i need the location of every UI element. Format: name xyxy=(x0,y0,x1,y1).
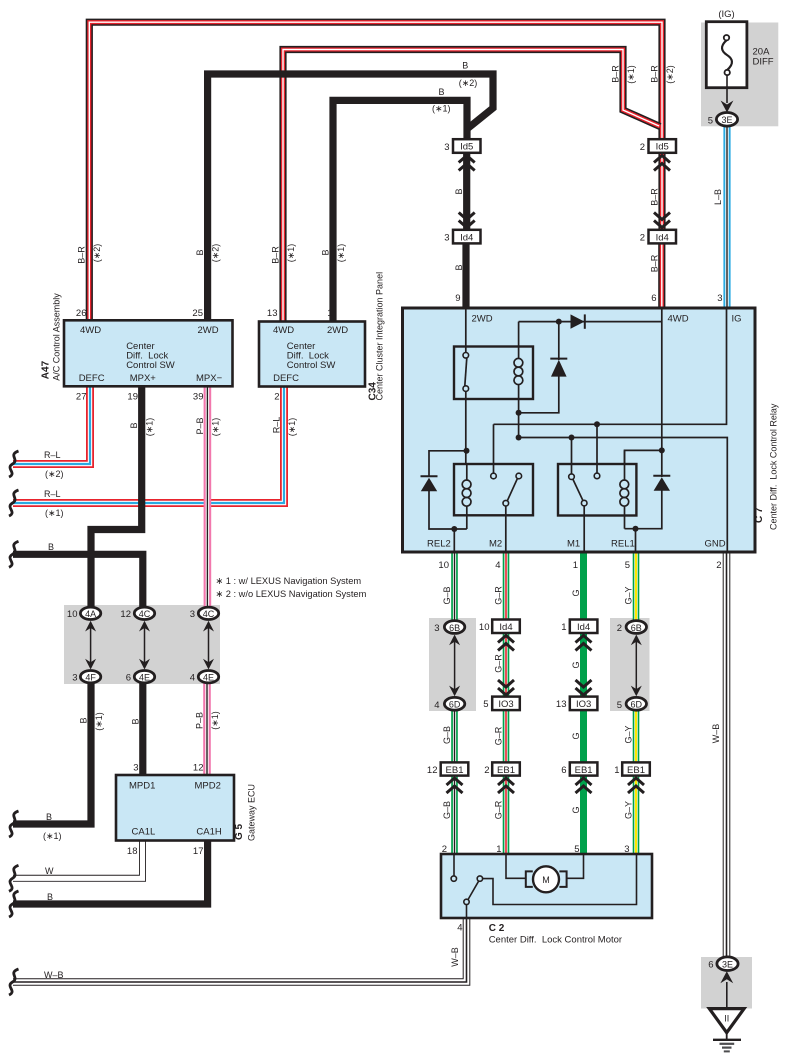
svg-text:Control SW: Control SW xyxy=(287,360,336,371)
wire B from junction 4E-6 to G5 MPD1 pin 3 xyxy=(139,677,146,776)
svg-text:10: 10 xyxy=(438,560,449,571)
chevrons above Id4 pin 3 xyxy=(459,213,475,228)
svg-text:R–L: R–L xyxy=(272,417,282,434)
svg-text:B: B xyxy=(46,812,52,822)
svg-text:(IG): (IG) xyxy=(718,9,734,20)
junction oval 4C pin 3 xyxy=(198,607,218,619)
svg-text:G–Y: G–Y xyxy=(624,586,634,604)
svg-text:REL2: REL2 xyxy=(427,539,451,550)
svg-text:B: B xyxy=(454,188,464,194)
wire B from left squiggle to G5 CA1H pin 17 xyxy=(13,840,208,904)
svg-text:2WD: 2WD xyxy=(327,325,348,336)
svg-text:GND: GND xyxy=(705,539,726,550)
svg-text:1: 1 xyxy=(561,622,566,633)
svg-text:M1: M1 xyxy=(567,539,580,550)
svg-text:1: 1 xyxy=(496,844,501,855)
motor M circle xyxy=(533,866,559,892)
REL1 down xyxy=(635,529,637,552)
svg-text:B: B xyxy=(454,264,464,270)
svg-text:A/C Control Assembly: A/C Control Assembly xyxy=(52,293,62,381)
svg-text:EB1: EB1 xyxy=(575,765,593,776)
junction oval 4C pin 12 xyxy=(134,607,154,619)
diode up (right, REL1) xyxy=(653,476,670,491)
svg-text:G–R: G–R xyxy=(494,726,504,745)
svg-text:G: G xyxy=(571,806,581,813)
coil top relay xyxy=(514,347,523,400)
ground point triangle II xyxy=(709,1009,744,1033)
arrows between 4A and 4F xyxy=(85,621,96,670)
connector Id4 pin 10 (M2 column) xyxy=(492,620,520,634)
svg-text:(∗1): (∗1) xyxy=(210,711,220,730)
svg-text:EB1: EB1 xyxy=(446,765,464,776)
chevrons above Id4 pin 2 xyxy=(654,213,670,228)
svg-text:(∗2): (∗2) xyxy=(211,244,221,263)
svg-text:Center Cluster Integration Pan: Center Cluster Integration Panel xyxy=(375,272,385,401)
svg-text:R–L: R–L xyxy=(44,489,61,499)
svg-text:3: 3 xyxy=(444,233,449,244)
left diode branch xyxy=(429,451,467,477)
svg-text:G: G xyxy=(571,589,581,596)
svg-text:4: 4 xyxy=(457,923,462,934)
contact circles C7 xyxy=(463,353,600,507)
svg-text:5: 5 xyxy=(617,700,622,711)
wire 2WD vertical xyxy=(465,308,467,353)
svg-text:4E: 4E xyxy=(139,672,150,682)
svg-text:10: 10 xyxy=(67,609,78,620)
wire G-R from C7 M2 pin 4 through Id4-10, IO3-5, EB1-2 to C2 pin 1 xyxy=(503,552,510,855)
svg-text:Id4: Id4 xyxy=(577,622,590,633)
svg-text:2: 2 xyxy=(442,844,447,855)
svg-text:P–B: P–B xyxy=(195,712,205,729)
relay box bottom-left xyxy=(454,464,533,515)
svg-text:G 5: G 5 xyxy=(234,823,245,840)
svg-text:G–B: G–B xyxy=(442,801,452,819)
chevrons below Id4 pin 10 xyxy=(498,636,514,651)
wire B from left squiggle to junction 4C-12 xyxy=(13,554,143,613)
svg-text:B: B xyxy=(195,249,205,255)
fuse element xyxy=(722,35,732,75)
fuse 20A DIFF rectangle xyxy=(706,22,747,88)
svg-text:C 2: C 2 xyxy=(489,923,505,934)
svg-text:Center Diff. Lock Control Mot: Center Diff. Lock Control Motor xyxy=(489,935,622,946)
wire B-R between Id5-2 and Id4-2 xyxy=(658,153,665,231)
svg-text:4: 4 xyxy=(190,673,195,684)
chevrons above IO3 pin 5 xyxy=(498,680,514,695)
svg-text:6D: 6D xyxy=(631,700,643,710)
wire B (*2) from A47 pin 25 joining Id5 pin 3 xyxy=(208,74,493,322)
svg-text:B–R: B–R xyxy=(650,65,660,83)
svg-text:P–B: P–B xyxy=(195,417,205,434)
svg-text:4A: 4A xyxy=(85,609,96,619)
svg-text:(∗1): (∗1) xyxy=(211,418,221,437)
svg-text:(∗1): (∗1) xyxy=(286,244,296,263)
svg-text:(∗1): (∗1) xyxy=(145,418,155,437)
svg-text:W–B: W–B xyxy=(44,970,64,980)
ground symbol xyxy=(713,1033,741,1052)
svg-text:9: 9 xyxy=(455,293,460,304)
wire B-R from Id4-2 to C7 pin 6 xyxy=(658,243,665,308)
coil bottom-right relay xyxy=(620,450,629,528)
wire G-Y from C7 REL1 pin 5 to junction 6B-2 xyxy=(633,552,640,627)
svg-text:3: 3 xyxy=(717,293,722,304)
svg-text:R–L: R–L xyxy=(44,450,61,460)
svg-text:MPX−: MPX− xyxy=(196,373,223,384)
REL2 down xyxy=(453,529,455,552)
diode up (left, REL2) xyxy=(421,476,438,491)
wire P-B from A47 MPX- pin 39 to junction 4C-3 xyxy=(204,386,212,613)
svg-text:L–B: L–B xyxy=(713,189,723,205)
svg-text:26: 26 xyxy=(76,308,87,319)
wire R-L (*2) from left squiggle to A47 DEFC pin 27 xyxy=(13,386,90,464)
svg-text:Center Diff. Lock Control Rel: Center Diff. Lock Control Relay xyxy=(769,403,779,530)
svg-text:(∗2): (∗2) xyxy=(459,78,478,88)
svg-text:5: 5 xyxy=(708,115,713,126)
wire from fuse to 3E with down arrow xyxy=(721,75,734,113)
connector EB1 pin 6 xyxy=(570,762,598,775)
svg-text:2: 2 xyxy=(640,233,645,244)
coil top connect right relay xyxy=(625,450,662,464)
svg-text:3: 3 xyxy=(72,673,77,684)
center diff. lock control motor C2 box xyxy=(441,854,652,918)
connector IO3 pin 13 xyxy=(570,697,598,711)
junction oval 6D pin 4 xyxy=(444,697,464,710)
svg-text:B: B xyxy=(462,61,468,71)
svg-text:W–B: W–B xyxy=(711,724,721,744)
connector Id5 pin 2 xyxy=(649,139,677,153)
wire B from Id4-3 to C7 pin 9 xyxy=(462,243,469,308)
svg-text:G: G xyxy=(571,661,581,668)
svg-text:(∗1): (∗1) xyxy=(45,508,64,518)
svg-text:M2: M2 xyxy=(489,539,502,550)
svg-text:4: 4 xyxy=(495,560,500,571)
wire G-B from junction 6D-4 to C2 pin 2 xyxy=(451,704,458,855)
svg-text:13: 13 xyxy=(556,699,567,710)
svg-text:Id4: Id4 xyxy=(460,232,473,243)
svg-text:B: B xyxy=(438,87,444,97)
svg-text:1: 1 xyxy=(327,308,332,319)
wire W from left squiggle to G5 CA1L pin 18 xyxy=(13,840,143,878)
svg-text:(∗1): (∗1) xyxy=(336,244,346,263)
svg-text:3E: 3E xyxy=(721,115,732,125)
lever M1 xyxy=(573,479,583,501)
gray block: junction connector 6B/6D (G-B column) xyxy=(429,618,476,711)
svg-text:(∗2): (∗2) xyxy=(92,244,102,263)
wire G-Y from junction 6D-5 to C2 pin 3 xyxy=(633,704,640,855)
v597 xyxy=(596,424,598,473)
svg-text:3: 3 xyxy=(133,763,138,774)
junction oval 6B pin 2 xyxy=(626,621,646,634)
gray block: fuse holder background xyxy=(701,23,778,127)
svg-text:B: B xyxy=(321,249,331,255)
wire W-B from left squiggle to C2 motor pin 4 xyxy=(13,918,467,982)
svg-text:6D: 6D xyxy=(449,700,461,710)
line1 xyxy=(494,308,727,424)
relay box top xyxy=(454,347,533,400)
lever M2 xyxy=(507,478,517,501)
svg-text:10: 10 xyxy=(479,622,490,633)
svg-text:G: G xyxy=(571,732,581,739)
wire B from A47 MPX+ pin 19 to junction 4A xyxy=(91,386,142,613)
wire L-B from fuse 3E to C7 pin 3 (IG) xyxy=(723,124,730,308)
wire G from C7 M1 pin 1 through Id4-1, IO3-13, EB1-6 to C2 pin 5 xyxy=(580,552,587,855)
arrow up into 3E and line from ground triangle xyxy=(720,971,733,1008)
chevrons below Id4 pin 1 xyxy=(576,636,592,651)
line2 xyxy=(519,438,728,553)
svg-text:B: B xyxy=(131,718,141,724)
wire B-R (*1) from C34 pin 13 joining Id5 pin 2 xyxy=(283,50,660,323)
connector EB1 pin 12 xyxy=(441,762,469,775)
junction oval 4A xyxy=(80,607,100,619)
svg-text:(∗1): (∗1) xyxy=(432,104,451,114)
svg-text:(∗2): (∗2) xyxy=(665,65,675,84)
svg-text:3: 3 xyxy=(444,142,449,153)
svg-text:4C: 4C xyxy=(139,609,151,619)
svg-text:G–Y: G–Y xyxy=(624,801,634,819)
svg-text:3E: 3E xyxy=(722,959,733,969)
svg-text:G–R: G–R xyxy=(494,800,504,819)
svg-text:5: 5 xyxy=(625,560,630,571)
svg-text:19: 19 xyxy=(127,392,138,403)
svg-text:G–R: G–R xyxy=(494,654,504,673)
connector Id4 pin 3 xyxy=(453,230,481,244)
svg-text:2: 2 xyxy=(274,392,279,403)
svg-text:18: 18 xyxy=(127,846,138,857)
wire P-B from junction 4E-4 to G5 MPD2 pin 12 xyxy=(203,677,211,776)
arrows between 6B and 6D xyxy=(449,635,460,697)
wire R-L (*1) from left squiggle to C34 DEFC pin 2 xyxy=(13,386,284,503)
svg-text:C 7: C 7 xyxy=(754,507,765,523)
svg-text:CA1L: CA1L xyxy=(132,827,156,838)
svg-text:(∗1): (∗1) xyxy=(43,831,62,841)
connector EB1 pin 2 xyxy=(492,762,520,775)
relay box bottom-right xyxy=(558,464,636,516)
center diff. lock control relay C7 box xyxy=(403,308,756,552)
svg-text:5: 5 xyxy=(483,699,488,710)
switch in top relay xyxy=(465,358,467,386)
svg-text:3: 3 xyxy=(624,844,629,855)
arrows between 4C and 4E pin 4 xyxy=(203,621,214,670)
svg-text:1: 1 xyxy=(573,560,578,571)
chevrons below EB1 pin 12 xyxy=(447,778,463,793)
connector EB1 pin 1 xyxy=(622,762,650,775)
arrows between 6B and 6D right xyxy=(631,635,642,697)
svg-text:6: 6 xyxy=(126,673,131,684)
A/C control assembly A47 box xyxy=(64,320,233,386)
C2 switch contact circles xyxy=(451,876,483,905)
svg-text:DEFC: DEFC xyxy=(79,373,105,384)
svg-text:6: 6 xyxy=(651,293,656,304)
4WD vertical xyxy=(661,308,663,477)
svg-text:2WD: 2WD xyxy=(198,325,219,336)
wire B (*1) from C34 pin 1 to Id5 pin 3 xyxy=(333,100,467,322)
svg-text:(∗1): (∗1) xyxy=(287,418,297,437)
svg-text:DEFC: DEFC xyxy=(273,373,299,384)
svg-text:A47: A47 xyxy=(41,360,52,379)
svg-text:Gateway ECU: Gateway ECU xyxy=(247,784,257,841)
svg-text:6: 6 xyxy=(561,765,566,776)
svg-text:4WD: 4WD xyxy=(273,325,294,336)
svg-text:4: 4 xyxy=(434,700,439,711)
connector IO3 pin 5 xyxy=(492,697,520,711)
vertical with diode to coil bottom xyxy=(558,322,560,360)
svg-text:EB1: EB1 xyxy=(627,765,645,776)
svg-text:B: B xyxy=(79,717,89,723)
wire W-B from C7 GND pin 2 to ground connector 3E-6 xyxy=(723,552,731,960)
svg-text:3: 3 xyxy=(434,623,439,634)
svg-text:2: 2 xyxy=(716,560,721,571)
svg-text:4E: 4E xyxy=(203,672,214,682)
junction oval 4E pin 6 xyxy=(134,671,154,683)
svg-text:25: 25 xyxy=(192,308,203,319)
svg-text:G–B: G–B xyxy=(442,726,452,744)
squiggle break symbols on left edge xyxy=(9,451,19,995)
svg-text:12: 12 xyxy=(193,763,204,774)
svg-text:DIFF: DIFF xyxy=(753,57,774,68)
junction oval 6D pin 5 xyxy=(626,697,646,710)
svg-text:G–R: G–R xyxy=(494,586,504,605)
svg-text:W: W xyxy=(45,866,54,876)
wire G-B from C7 REL2 pin 10 to junction 6B-3 xyxy=(451,552,458,627)
svg-text:27: 27 xyxy=(76,392,87,403)
coil bottom-left relay xyxy=(462,464,471,529)
junction oval 4F xyxy=(80,671,100,683)
gray block: junction connector 4A/4C/4F/4E xyxy=(64,605,220,684)
svg-text:(∗1): (∗1) xyxy=(94,712,104,731)
svg-text:39: 39 xyxy=(193,392,204,403)
svg-text:6: 6 xyxy=(708,959,713,970)
svg-text:M: M xyxy=(542,875,550,885)
gateway ECU G5 box xyxy=(116,775,234,841)
diode up (mid) xyxy=(550,359,567,377)
svg-text:B: B xyxy=(129,422,139,428)
svg-text:4F: 4F xyxy=(85,672,96,682)
svg-text:6B: 6B xyxy=(631,623,642,633)
svg-text:B–R: B–R xyxy=(271,246,281,264)
svg-text:12: 12 xyxy=(427,765,438,776)
svg-text:2: 2 xyxy=(640,142,645,153)
chevrons below Id5 pin 2 xyxy=(654,156,670,171)
coil wire top relay xyxy=(518,322,520,347)
svg-text:B–R: B–R xyxy=(611,65,621,83)
svg-text:Id5: Id5 xyxy=(460,142,473,153)
svg-text:CA1H: CA1H xyxy=(196,827,221,838)
wire B (*1) from junction 4F down and left to squiggle xyxy=(13,677,91,824)
svg-text:2: 2 xyxy=(617,623,622,634)
svg-text:Id5: Id5 xyxy=(656,142,669,153)
svg-text:B: B xyxy=(47,892,53,902)
svg-text:2: 2 xyxy=(484,765,489,776)
connector Id5 pin 3 xyxy=(453,139,481,153)
chevrons above IO3 pin 13 xyxy=(576,680,592,695)
junction oval 6B pin 3 xyxy=(444,621,464,634)
svg-text:G–B: G–B xyxy=(442,586,452,604)
center cluster integration panel C34 box xyxy=(259,322,365,387)
wire B between Id5-3 and Id4-3 xyxy=(463,153,470,231)
svg-text:(∗2): (∗2) xyxy=(45,469,64,479)
connector 3E (top, from fuse) xyxy=(716,113,737,127)
svg-text:B–R: B–R xyxy=(650,254,660,272)
svg-text:IO3: IO3 xyxy=(576,699,591,710)
junction dots C7 xyxy=(451,319,665,532)
svg-text:MPD1: MPD1 xyxy=(129,781,155,792)
gray block: ground connector 3E background xyxy=(701,957,752,1009)
svg-text:MPD2: MPD2 xyxy=(195,781,221,792)
svg-text:IO3: IO3 xyxy=(498,699,513,710)
svg-text:W–B: W–B xyxy=(450,947,460,967)
svg-text:5: 5 xyxy=(574,844,579,855)
arrows between 4C and 4E pin 6 xyxy=(139,621,150,670)
junction oval 4E pin 4 xyxy=(198,671,218,683)
svg-text:2WD: 2WD xyxy=(472,314,493,325)
svg-text:12: 12 xyxy=(120,609,131,620)
svg-text:4C: 4C xyxy=(203,609,215,619)
svg-text:B–R: B–R xyxy=(650,188,660,206)
svg-text:B: B xyxy=(48,542,54,552)
svg-text:(∗1): (∗1) xyxy=(626,65,636,84)
svg-text:∗ 1 : w/ LEXUS Navigation Syst: ∗ 1 : w/ LEXUS Navigation System xyxy=(215,576,361,586)
C7 internal circuit xyxy=(429,308,727,552)
connector 3E pin 6 (ground) xyxy=(717,957,738,971)
svg-text:∗ 2 : w/o LEXUS Navigation Sys: ∗ 2 : w/o LEXUS Navigation System xyxy=(215,589,366,599)
svg-text:Control SW: Control SW xyxy=(126,360,175,371)
gray block: junction connector 6B/6D (G-Y column) xyxy=(610,618,650,711)
svg-text:IG: IG xyxy=(732,314,742,325)
chevrons below EB1 pin 2 xyxy=(498,778,514,793)
chevrons below EB1 pin 1 xyxy=(628,778,644,793)
svg-text:6B: 6B xyxy=(449,623,460,633)
svg-text:13: 13 xyxy=(267,308,278,319)
svg-text:4WD: 4WD xyxy=(668,314,689,325)
svg-text:Id4: Id4 xyxy=(656,232,669,243)
diode right-pointing (top) xyxy=(571,314,585,328)
svg-text:II: II xyxy=(724,1014,729,1024)
top horizontal to 4WD xyxy=(519,321,662,323)
svg-text:B–R: B–R xyxy=(77,246,87,264)
C2 motor internal xyxy=(454,854,637,918)
svg-text:Id4: Id4 xyxy=(499,622,512,633)
svg-text:17: 17 xyxy=(193,846,204,857)
svg-text:REL1: REL1 xyxy=(611,539,635,550)
svg-text:G–Y: G–Y xyxy=(624,725,634,743)
chevrons below EB1 pin 6 xyxy=(576,778,592,793)
svg-text:EB1: EB1 xyxy=(497,765,515,776)
wire B-R (*2) from A47 pin 26 over top to Id5 pin 2 xyxy=(89,22,662,322)
svg-text:1: 1 xyxy=(614,765,619,776)
chevrons below Id5 pin 3 xyxy=(459,156,475,171)
svg-text:MPX+: MPX+ xyxy=(130,373,157,384)
svg-text:4WD: 4WD xyxy=(80,325,101,336)
svg-text:3: 3 xyxy=(190,609,195,620)
connector Id4 pin 2 xyxy=(649,230,677,244)
connector Id4 pin 1 (M1 column) xyxy=(570,620,598,634)
